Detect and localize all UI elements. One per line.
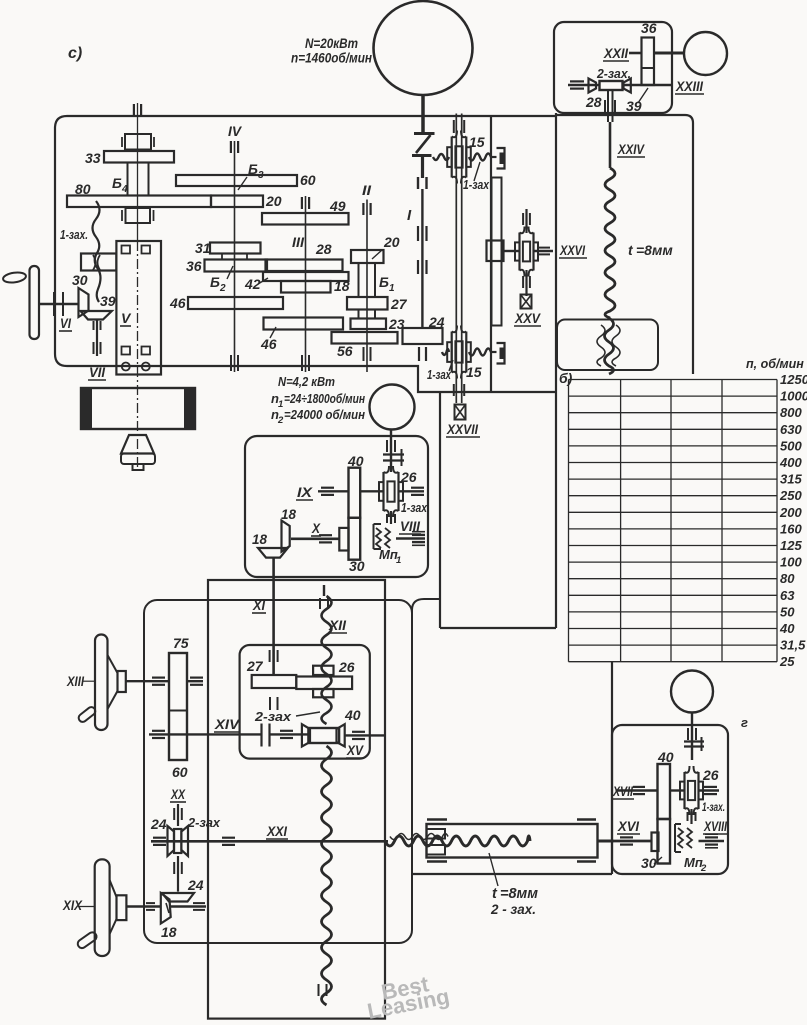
block B2 gear 36: [205, 260, 268, 272]
upper traverse stop: [491, 156, 497, 158]
svg-text:100: 100: [780, 555, 802, 570]
svg-text:30: 30: [72, 272, 88, 288]
slide block: [487, 241, 504, 262]
gear 28: [266, 260, 343, 272]
shaft I: [421, 189, 423, 328]
top-right drive housing: [554, 22, 672, 113]
svg-text:=8мм: =8мм: [636, 242, 673, 258]
M2 coupling: [383, 453, 404, 455]
svg-text:п, об/мин: п, об/мин: [746, 357, 804, 371]
shaft X: [291, 537, 339, 540]
svg-text:XIX: XIX: [62, 898, 83, 913]
M4 shaft: [691, 713, 693, 761]
svg-text:18: 18: [334, 278, 350, 294]
shaft I bearings: [417, 226, 419, 241]
svg-text:=24÷1800об/мин: =24÷1800об/мин: [284, 391, 365, 406]
gear hub on X: [339, 528, 348, 551]
shaft IX: [318, 490, 349, 492]
leadscrew compartment: [412, 599, 440, 610]
svg-text:1-зах: 1-зах: [463, 178, 490, 192]
svg-text:II: II: [362, 182, 372, 198]
svg-text:2-зах: 2-зах: [254, 709, 292, 724]
pilot motor M3: [684, 32, 727, 75]
svg-text:75: 75: [173, 635, 189, 651]
svg-text:1-зах.: 1-зах.: [702, 800, 725, 814]
svg-text:500: 500: [780, 438, 802, 453]
svg-text:80: 80: [780, 571, 795, 586]
shaft XXI: [151, 840, 388, 843]
lower traverse stop: [491, 351, 497, 353]
svg-text:315: 315: [780, 472, 802, 487]
screw XXIV: [609, 122, 612, 168]
svg-text:27: 27: [390, 296, 408, 312]
svg-text:49: 49: [329, 198, 346, 214]
barrel mounts: [427, 818, 447, 820]
svg-text:III: III: [292, 235, 304, 250]
svg-text:36: 36: [186, 258, 202, 274]
gear 80: [67, 196, 211, 208]
vertical shaft of XXVI unit: [525, 209, 527, 233]
handwheel XIX: [95, 859, 110, 956]
speed chart grid: [569, 379, 778, 381]
svg-text:3: 3: [258, 170, 264, 181]
svg-text:630: 630: [780, 422, 802, 437]
svg-text:31: 31: [195, 240, 211, 256]
svg-text:26: 26: [338, 659, 355, 675]
svg-text:VI: VI: [60, 316, 71, 331]
svg-text:60: 60: [300, 172, 316, 188]
svg-text:XXIV: XXIV: [617, 142, 645, 157]
shaft XVI: [614, 840, 652, 843]
bearing below lower worm: [453, 384, 455, 396]
svg-text:26: 26: [400, 469, 417, 485]
svg-text:56: 56: [337, 343, 353, 359]
main speed gearbox housing: [55, 116, 556, 392]
upper worm drive 15: [433, 154, 449, 160]
shaft XX lower: [177, 856, 179, 892]
svg-text:800: 800: [780, 405, 802, 420]
divider wall x=491: [490, 116, 492, 392]
svg-text:Б: Б: [210, 274, 220, 290]
gear block 75/60: [169, 653, 187, 760]
leadscrew barrel: [427, 824, 598, 858]
clutch Мп1: [373, 524, 375, 549]
svg-text:XXIII: XXIII: [675, 79, 703, 94]
shaft III bottom bearing: [301, 355, 303, 371]
block B1 gear 20: [351, 250, 384, 263]
svg-text:40: 40: [344, 707, 361, 723]
shaft XIV: [149, 733, 261, 735]
svg-text:XX: XX: [170, 787, 186, 802]
grinding wheel / bell center: [121, 435, 154, 454]
dog clutch on XIV: [260, 724, 262, 747]
svg-text:18: 18: [281, 507, 297, 522]
shaft III: [305, 196, 307, 372]
svg-text:Б: Б: [248, 161, 258, 177]
svg-text:40: 40: [657, 749, 674, 765]
svg-text:Б: Б: [112, 175, 122, 191]
svg-text:18: 18: [161, 924, 177, 940]
bottom-right feed drive housing: [612, 725, 728, 874]
svg-text:Б: Б: [379, 274, 389, 290]
svg-text:4: 4: [121, 184, 128, 195]
svg-text:1: 1: [396, 555, 401, 566]
svg-text:1-зах: 1-зах: [401, 501, 428, 515]
svg-text:=8мм: =8мм: [500, 886, 538, 902]
svg-text:24: 24: [150, 816, 167, 832]
stop XXV: [521, 295, 532, 309]
svg-text:50: 50: [780, 604, 795, 619]
hub 30 with clutch: [81, 254, 116, 271]
svg-text:24: 24: [428, 314, 445, 330]
svg-text:24: 24: [187, 877, 204, 893]
svg-text:2-зах.: 2-зах.: [596, 67, 631, 81]
inner feed unit box: [240, 645, 370, 759]
svg-text:40: 40: [779, 621, 795, 636]
gear 36 on XXII: [642, 38, 655, 86]
M4 coupling: [684, 740, 704, 742]
shaft IV bottom bearing: [230, 355, 232, 371]
svg-text:46: 46: [260, 336, 277, 352]
main motor M1: [374, 1, 473, 95]
shaft XI: [272, 558, 275, 675]
svg-text:1-зах.: 1-зах.: [60, 228, 88, 242]
gear 46 on III: [264, 318, 344, 330]
svg-text:1-зах: 1-зах: [427, 368, 452, 382]
svg-text:28: 28: [315, 241, 332, 257]
gear 27 on XI: [252, 675, 297, 688]
svg-text:31,5: 31,5: [780, 638, 806, 653]
gear 33: [104, 151, 174, 163]
svg-text:60: 60: [172, 764, 188, 780]
feed motor M4: [671, 671, 713, 713]
gear 20 on shaft IV: [211, 196, 263, 208]
svg-text:XXII: XXII: [603, 46, 628, 61]
svg-text:63: 63: [780, 588, 795, 603]
svg-text:VII: VII: [89, 365, 105, 380]
svg-text:160: 160: [780, 521, 802, 536]
shaft VII stub: [96, 320, 98, 357]
belt-drive break symbol: [414, 132, 435, 135]
svg-text:46: 46: [169, 295, 186, 311]
worm wheel 40 on XV: [302, 724, 310, 746]
svg-text:2: 2: [700, 863, 707, 874]
svg-text:XXVII: XXVII: [446, 422, 478, 437]
block B2 gear 31: [210, 243, 261, 254]
svg-text:Мп: Мп: [379, 547, 398, 562]
shaft XXVI: [504, 250, 520, 252]
gear 56: [332, 332, 398, 344]
bottom of middle compartment: [440, 627, 556, 629]
svg-text:Мп: Мп: [684, 855, 703, 870]
svg-text:39: 39: [100, 293, 116, 309]
svg-text:2: 2: [277, 415, 284, 426]
gear 60 on IV: [176, 175, 297, 186]
clutch Мп2: [674, 824, 676, 852]
shaft II bottom bearing: [363, 347, 365, 361]
shaft XIX: [126, 905, 162, 908]
shaft VIII with overrunning clutch Мп1: [390, 511, 392, 524]
screw XII lower part: [322, 746, 332, 1005]
svg-text:N=4,2 кВт: N=4,2 кВт: [278, 374, 335, 389]
svg-text:400: 400: [779, 455, 802, 470]
shaft XVIII: [699, 840, 725, 843]
worm gear 26 on M2 shaft: [382, 472, 384, 511]
svg-text:80: 80: [75, 181, 91, 197]
apron tall housing: [208, 580, 385, 1019]
svg-text:XXVI: XXVI: [559, 243, 585, 258]
workpiece table: [81, 388, 195, 429]
screw XXIV shaft top: [607, 90, 609, 122]
svg-text:с): с): [68, 45, 82, 62]
bevel pair 18/18: [282, 521, 290, 552]
shaft V centerline: [137, 103, 139, 241]
worm gear 24 on XX: [168, 826, 175, 856]
right wall x=556 of middle compartment: [555, 113, 557, 628]
gear 24 on shaft I: [403, 328, 443, 344]
svg-text:XXV: XXV: [514, 311, 541, 326]
bevel pair 39: [79, 288, 89, 317]
feed rounded housing: [144, 600, 412, 943]
hand crank VI: [2, 271, 26, 284]
gear 27 on B1: [347, 297, 388, 310]
svg-text:XVII: XVII: [612, 784, 633, 799]
gear 49: [262, 213, 349, 225]
tailstock housing (right): [556, 115, 693, 374]
gear 23 on B1: [351, 319, 387, 330]
svg-text:25: 25: [779, 654, 795, 669]
quill nut waves: [597, 325, 605, 366]
svg-text:б): б): [559, 370, 573, 386]
svg-text:250: 250: [779, 488, 802, 503]
svg-text:=24000 об/мин: =24000 об/мин: [284, 407, 365, 422]
worm gear 26 on M4 shaft: [683, 772, 685, 809]
shaft XXII to motor: [654, 52, 685, 55]
svg-text:XV: XV: [346, 743, 364, 758]
shaft XI bottom marks: [269, 697, 271, 710]
shaft XXII: [629, 52, 642, 55]
leadscrew wavy shaft: [385, 836, 530, 846]
svg-text:18: 18: [252, 532, 268, 547]
M2 shaft: [390, 430, 392, 473]
svg-text:IV: IV: [228, 123, 243, 139]
feed motor M2: [370, 385, 415, 430]
svg-text:XVI: XVI: [617, 819, 639, 834]
gear band 26: [296, 677, 352, 690]
svg-text:1000: 1000: [780, 389, 807, 404]
shaft XVI stub: [598, 840, 614, 843]
svg-text:33: 33: [85, 150, 101, 166]
gear 26 hub: [313, 666, 333, 675]
svg-text:20: 20: [383, 234, 400, 250]
shaft I coupling marks: [417, 177, 419, 189]
bracket V housing: [116, 241, 161, 375]
svg-text:n=1460об/мин: n=1460об/мин: [291, 51, 372, 66]
svg-text:2: 2: [219, 283, 226, 294]
feed worm shaft double line: [455, 114, 457, 404]
second motor gearbox housing: [245, 436, 428, 577]
svg-text:N=20кВт: N=20кВт: [305, 36, 358, 51]
bevel pair 24/18 on XIX: [162, 893, 194, 902]
svg-text:XIV: XIV: [214, 717, 240, 732]
gear 40 and 30 block: [349, 468, 361, 518]
shaft XVII: [616, 789, 658, 791]
svg-text:20: 20: [265, 193, 282, 209]
B4 lower hub: [126, 208, 151, 223]
B1 hub: [359, 263, 376, 297]
stop XXVII: [455, 405, 466, 420]
svg-text:125: 125: [780, 538, 802, 553]
handwheel XIII: [95, 635, 108, 731]
svg-text:36: 36: [641, 20, 657, 36]
svg-text:IX: IX: [297, 485, 313, 500]
left wall of middle compartment: [439, 392, 441, 628]
svg-text:23: 23: [388, 316, 405, 332]
svg-text:30: 30: [349, 558, 365, 574]
svg-text:40: 40: [347, 453, 364, 469]
svg-text:2-зах: 2-зах: [187, 815, 221, 830]
svg-text:XIII: XIII: [66, 674, 84, 689]
motor shaft to gearbox: [421, 95, 425, 133]
svg-text:27: 27: [246, 658, 264, 674]
svg-text:1: 1: [389, 283, 395, 294]
vertical link to clutch: [690, 809, 692, 824]
quill box with nut: [557, 320, 658, 371]
gear 42: [263, 272, 349, 281]
gear 40/30 block: [658, 764, 671, 819]
gear 18: [281, 281, 331, 293]
svg-text:15: 15: [466, 364, 482, 380]
shaft XV stubs: [345, 734, 384, 736]
gear 46 on IV: [188, 297, 283, 309]
svg-text:28: 28: [585, 94, 602, 110]
svg-text:15: 15: [469, 134, 485, 150]
shaft XIII: [126, 680, 169, 682]
worm wheel XXVI: [518, 233, 520, 271]
svg-text:XVIII: XVIII: [703, 819, 727, 834]
svg-text:2 - зах.: 2 - зах.: [490, 902, 536, 917]
block B4 upper hub: [125, 134, 151, 150]
svg-text:X: X: [311, 521, 321, 536]
B4 hub: [128, 163, 149, 196]
svg-text:XI: XI: [252, 598, 265, 613]
svg-text:200: 200: [779, 505, 802, 520]
svg-text:1250: 1250: [780, 372, 807, 387]
svg-text:XXI: XXI: [266, 824, 287, 839]
svg-text:г: г: [741, 715, 748, 730]
svg-text:26: 26: [702, 767, 719, 783]
lower worm drive 15: [442, 349, 449, 355]
rack bar: [492, 178, 502, 326]
gear hub on XVI: [652, 833, 659, 852]
